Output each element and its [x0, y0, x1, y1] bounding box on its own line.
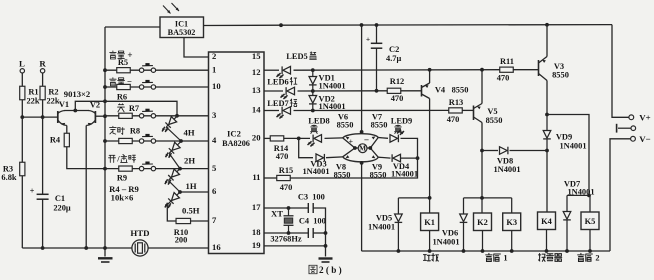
resistor R1 22k: [20, 86, 25, 100]
wire R down: [42, 73, 44, 87]
resistor R4: [64, 133, 69, 147]
diode VD9 1N4001: [546, 115, 548, 131]
svg-text:32768Hz: 32768Hz: [270, 234, 302, 244]
resistor R6: [117, 84, 131, 89]
wire R14 out: [284, 137, 310, 139]
wire row2: [105, 86, 209, 88]
resistor R10 200: [176, 218, 191, 223]
node rail-pin15: [279, 23, 283, 27]
wire chain feed: [75, 101, 177, 116]
node XT-bottom: [287, 231, 291, 235]
ground symbol left: [98, 257, 113, 259]
node R14-split: [297, 137, 301, 141]
svg-text:1: 1: [503, 253, 507, 263]
wire row1: [105, 69, 209, 71]
wire R11 to V3: [513, 69, 538, 71]
button S4: [139, 139, 143, 143]
node bus-row1: [103, 68, 107, 72]
svg-text:10: 10: [212, 81, 221, 91]
svg-text:1N4001: 1N4001: [391, 169, 418, 179]
terminal V-: [631, 136, 636, 141]
buzzer HTD: [132, 240, 148, 256]
svg-text:R9: R9: [117, 173, 127, 183]
resistor R15 470: [277, 175, 291, 180]
label yinyuan1 (source1): [486, 253, 492, 261]
transistor V5 8550: [473, 106, 475, 121]
svg-text:470: 470: [497, 73, 510, 83]
wire row19: [264, 245, 326, 247]
label off R7 (CJK guan): [118, 104, 125, 112]
wire VD7-K5 top: [567, 194, 590, 196]
wire bottom bus relays: [362, 250, 611, 252]
wire V+ rail top: [281, 24, 612, 27]
node VD8-K4: [545, 149, 549, 153]
node rail-V3: [545, 23, 549, 27]
wire row18: [264, 232, 308, 234]
wire row6 pin6: [180, 191, 209, 193]
svg-text:11: 11: [252, 172, 260, 182]
svg-text:470: 470: [280, 182, 293, 192]
node bus-chainfeed: [103, 99, 107, 103]
svg-text:2 ( b ): 2 ( b ): [319, 265, 342, 275]
diode VD1 1N4001: [312, 70, 314, 76]
svg-text:1H: 1H: [186, 181, 197, 191]
svg-text:IC2: IC2: [227, 129, 241, 139]
label timer R8 (CJK ding shi): [110, 126, 117, 134]
resistor R11 470: [500, 67, 514, 72]
node K1-top: [428, 196, 432, 200]
relay K3: [511, 198, 513, 213]
wire bridge to LED9: [378, 137, 388, 140]
diode VD5 1N4001: [397, 198, 399, 214]
node V5-VD8: [480, 149, 484, 153]
diode VD2 1N4001: [312, 91, 314, 95]
wire to K4: [546, 151, 548, 213]
terminal middle: [631, 126, 636, 131]
label vol- (CJK yin liang -): [110, 78, 116, 86]
node rail-bridge: [360, 23, 364, 27]
node K1-bus: [428, 249, 432, 253]
svg-text:C1: C1: [55, 193, 65, 203]
relay K2: [481, 198, 483, 213]
label gongfang (amp): [424, 255, 431, 261]
button S2: [139, 85, 143, 89]
wire C1 to bus: [42, 199, 44, 248]
svg-text:1N4001: 1N4001: [493, 164, 520, 174]
node C2-row13: [375, 89, 379, 93]
wire chain 1-2: [166, 127, 181, 141]
node bus-row5: [103, 167, 107, 171]
svg-text:10k×6: 10k×6: [111, 193, 134, 203]
terminal V+: [629, 115, 634, 120]
wire R13 to V5: [462, 109, 473, 111]
LED D-1H: [177, 169, 180, 172]
wire row17: [264, 207, 308, 209]
button S5: [139, 166, 143, 170]
svg-text:2H: 2H: [184, 156, 195, 166]
wire VD6-K3 top: [464, 197, 512, 199]
svg-text:200: 200: [175, 235, 188, 245]
node K2-top: [480, 196, 484, 200]
node V2emitter-bus: [84, 246, 88, 250]
resistor R3 6.8k: [20, 162, 25, 176]
relay K4: [538, 212, 556, 230]
resistor R12 470: [387, 88, 401, 93]
node VD6-bus: [462, 249, 466, 253]
svg-text:100: 100: [313, 216, 326, 226]
svg-text:+: +: [366, 35, 370, 44]
wire VD5-K1 top: [398, 197, 429, 199]
LED LED7: [283, 107, 291, 115]
diode VD8 1N4001: [500, 147, 508, 155]
node V4-row12: [428, 68, 432, 72]
diode VD4 1N4001: [393, 154, 401, 162]
svg-text:3: 3: [212, 110, 217, 120]
node K4-bus: [545, 249, 549, 253]
wire L down: [21, 73, 23, 87]
svg-text:R6: R6: [117, 92, 127, 102]
LED D-0.5H: [177, 192, 180, 195]
node chain-top feed: [73, 109, 77, 113]
transistor V6 arrow: [346, 137, 350, 140]
svg-text:1N4001: 1N4001: [319, 80, 346, 90]
label yinyuan2 (source2): [578, 253, 584, 261]
wire chain 3-4: [168, 180, 180, 192]
resistor R2 22k: [40, 86, 45, 100]
wire C4 right: [313, 232, 325, 234]
svg-text:BA8206: BA8206: [222, 139, 250, 148]
svg-text:K2: K2: [477, 217, 488, 227]
svg-text:470: 470: [447, 114, 460, 124]
wire row20: [264, 137, 270, 139]
svg-text:K3: K3: [506, 217, 517, 227]
svg-text:100: 100: [312, 192, 325, 202]
node motor left: [353, 146, 357, 150]
diode VD7 1N4001: [566, 195, 568, 211]
node bus-row4: [103, 139, 107, 143]
svg-text:C4: C4: [299, 216, 310, 226]
resistor R5: [117, 68, 131, 73]
transistor V7 arrow: [372, 136, 376, 139]
wire down to C1: [42, 117, 44, 194]
svg-text:8550: 8550: [486, 115, 503, 125]
wire row3 pin3: [105, 115, 209, 117]
wire bottom bus right to pin16: [148, 247, 208, 249]
capacitor C2 4.7u: [376, 25, 378, 43]
wire base row to V1: [22, 116, 58, 118]
transistor V3 8550: [538, 60, 540, 76]
node chain-row4: [179, 139, 183, 143]
relay K1: [429, 198, 431, 213]
svg-text:5: 5: [212, 163, 216, 173]
label on/select (CJK kai / xuan ze): [109, 155, 116, 162]
wire row12: [264, 69, 279, 71]
IR arrows into IC1: [163, 6, 171, 14]
node pin19-gnd: [324, 244, 328, 248]
svg-text:C3: C3: [298, 192, 308, 202]
svg-text:K4: K4: [541, 216, 553, 226]
svg-text:19: 19: [252, 240, 261, 250]
wire rail to bridge top: [361, 25, 363, 132]
svg-text:1N4001: 1N4001: [368, 221, 395, 231]
svg-text:20: 20: [252, 133, 261, 143]
svg-text:LED5: LED5: [286, 51, 308, 61]
LED LED6: [287, 87, 295, 95]
node chain-row6: [178, 190, 182, 194]
node VD4-corner: [416, 156, 420, 160]
node V3-split: [545, 113, 549, 117]
node C4-gnd: [324, 231, 328, 235]
node bus-V2base: [103, 114, 107, 118]
svg-text:R13: R13: [449, 97, 463, 107]
wire V3 bottom: [546, 81, 548, 115]
wire row13: [264, 90, 283, 92]
diode VD6 1N4001: [463, 198, 465, 214]
wire row14: [264, 110, 279, 112]
svg-text:1N4001: 1N4001: [432, 236, 459, 246]
node K5-bus: [588, 249, 592, 253]
wire R2 to base node: [42, 100, 44, 118]
wire LED9 corner: [401, 138, 418, 158]
wire chain to R10: [167, 205, 176, 221]
wire VD8 row left: [482, 150, 498, 152]
svg-text:4: 4: [212, 135, 217, 145]
svg-text:R7: R7: [129, 103, 139, 113]
wire VD4 row: [401, 157, 418, 159]
wire VD3 branch: [299, 138, 313, 157]
wire V4 emitter up: [429, 70, 431, 83]
transistor V4 8550: [421, 85, 423, 97]
svg-text:4H: 4H: [184, 128, 195, 138]
wire bridge bottom down: [361, 163, 363, 251]
svg-text:14: 14: [252, 105, 261, 115]
node bridge bottom: [360, 161, 364, 165]
wire V5 collector down: [481, 123, 483, 198]
node VD1-top: [311, 68, 315, 72]
svg-text:V+: V+: [639, 112, 650, 122]
wire row12 cont: [294, 69, 501, 72]
svg-text:9013×2: 9013×2: [64, 89, 90, 99]
svg-text:LED6: LED6: [267, 76, 289, 86]
node K5-top: [587, 194, 591, 198]
wire ground bus vertical: [104, 27, 106, 257]
svg-text:LED9: LED9: [391, 116, 413, 126]
wire R1 to base node: [21, 100, 23, 118]
svg-text:/: /: [116, 154, 120, 164]
resistor R8: [119, 138, 133, 143]
node VD2-bottom: [311, 109, 315, 113]
wire row13 cont: [298, 90, 388, 92]
node bridge top: [360, 130, 364, 134]
crystal XT 32768Hz: [288, 208, 290, 216]
node C1-bus: [41, 246, 45, 250]
svg-text:8550: 8550: [552, 70, 569, 80]
node V5-row12: [480, 68, 484, 72]
svg-text:R15: R15: [279, 165, 293, 175]
label yangshengqi (speaker): [539, 254, 546, 262]
svg-text:+: +: [349, 136, 354, 145]
svg-text:6.8k: 6.8k: [1, 172, 17, 182]
wire VD8 row right: [510, 150, 548, 152]
svg-text:HTD: HTD: [130, 228, 149, 238]
wire row11: [264, 177, 277, 179]
svg-text:R8: R8: [130, 126, 140, 136]
wire R3 to bus: [21, 176, 23, 248]
button S1: [139, 68, 143, 72]
node chain-R7row: [175, 114, 179, 118]
svg-text:1N4001: 1N4001: [559, 140, 586, 150]
node VD5-bus: [397, 249, 401, 253]
caption fig 2(b): [309, 265, 317, 273]
wire V5 emitter up: [481, 70, 483, 104]
wire R15 to corner: [291, 158, 418, 178]
svg-text:8550: 8550: [371, 120, 388, 130]
wire V3 top to rail: [546, 25, 548, 57]
svg-text:22k: 22k: [46, 96, 59, 106]
svg-text:LED8: LED8: [308, 116, 330, 126]
resistor R7: [119, 113, 133, 118]
LED LED8: [314, 135, 322, 143]
wire IC1 left to ground bus: [105, 26, 160, 28]
wire V2 base to bus: [95, 115, 105, 117]
node rail-C2: [375, 23, 379, 27]
wire row4 pin4: [105, 140, 209, 142]
node bus-row2: [103, 85, 107, 89]
svg-text:BA5302: BA5302: [168, 28, 196, 37]
svg-text:470: 470: [391, 93, 404, 103]
node XT-top: [287, 206, 291, 210]
svg-text:2: 2: [595, 253, 599, 263]
svg-text:K1: K1: [424, 217, 435, 227]
wire C3 right: [313, 208, 325, 257]
svg-text:22k: 22k: [26, 96, 39, 106]
svg-text:18: 18: [252, 227, 261, 237]
svg-text:6: 6: [212, 186, 217, 196]
button S3: [139, 114, 143, 118]
node motor right: [368, 146, 372, 150]
svg-text:8550: 8550: [452, 85, 469, 95]
LED LED9: [390, 135, 398, 143]
wire IC1 right to V+ rail: [204, 24, 282, 26]
IC IC1 BA5302 infrared receiver: [160, 17, 204, 38]
LED D-4H: [174, 116, 177, 119]
wire R12 to V4: [401, 90, 422, 92]
svg-text:15: 15: [252, 51, 261, 61]
node bus-bottom: [103, 246, 107, 250]
relay K5: [589, 195, 591, 212]
resistor R9: [119, 166, 133, 171]
svg-text:0.5H: 0.5H: [182, 206, 200, 216]
wire R4 to R9 node: [67, 147, 105, 169]
IC IC2 BA8206: [209, 52, 265, 254]
node K2-bus: [481, 249, 485, 253]
wire V+ drop right: [612, 25, 629, 118]
wire V4 collector down: [429, 99, 431, 198]
ground symbol right: [319, 257, 333, 259]
svg-text:XT: XT: [271, 209, 283, 219]
node VD7-bus: [565, 249, 569, 253]
svg-text:12: 12: [252, 67, 261, 77]
svg-text:1N4001: 1N4001: [302, 166, 329, 176]
capacitor C1 220u: [37, 193, 49, 195]
wire down to R3: [21, 117, 23, 162]
node R-base: [41, 115, 45, 119]
wire row5 pin5: [105, 168, 209, 170]
wire bottom bus left: [22, 247, 132, 249]
svg-text:7: 7: [212, 215, 217, 225]
svg-text:V4: V4: [435, 85, 446, 95]
svg-text:R11: R11: [500, 56, 514, 66]
wire VD3 to bridge: [326, 156, 343, 159]
svg-text:1: 1: [212, 64, 216, 74]
svg-text:17: 17: [252, 202, 261, 212]
transistor V9 arrow: [372, 155, 376, 158]
node K3-bus: [510, 249, 514, 253]
svg-text:K5: K5: [585, 216, 596, 226]
svg-text:LED7: LED7: [267, 98, 289, 108]
svg-text:+: +: [127, 50, 132, 60]
svg-text:R: R: [39, 59, 46, 69]
svg-text:+: +: [30, 187, 35, 196]
svg-text:M: M: [359, 144, 366, 153]
motor bridge outline: [343, 134, 379, 138]
svg-text:1N4001: 1N4001: [319, 101, 346, 111]
resistor R13 470: [449, 108, 463, 113]
svg-text:470: 470: [276, 151, 289, 161]
svg-text:R4: R4: [50, 135, 61, 145]
wire row14 cont: [294, 109, 449, 111]
LED LED5: [283, 66, 291, 74]
resistor R14 470: [270, 136, 284, 141]
wire V1-V2 collector link: [65, 110, 90, 112]
svg-text:L: L: [19, 59, 25, 69]
svg-text:4.7μ: 4.7μ: [386, 53, 402, 63]
node L-base: [20, 115, 24, 119]
svg-text:220μ: 220μ: [53, 203, 71, 213]
node VD1-VD2: [311, 89, 315, 93]
svg-text:16: 16: [212, 242, 221, 252]
svg-text:13: 13: [252, 85, 261, 95]
wire V3 to K5 branch: [547, 115, 589, 196]
svg-text:R5: R5: [118, 57, 128, 67]
svg-text:V−: V−: [639, 134, 650, 144]
label vol+ (CJK yin liang +): [110, 51, 116, 59]
wire chain 2-3: [169, 153, 180, 169]
svg-text:2: 2: [212, 51, 216, 61]
svg-text:R12: R12: [390, 76, 404, 86]
svg-text:V1: V1: [59, 99, 69, 109]
transistor V8 arrow: [346, 155, 350, 158]
wire IC1 bottom to pin2: [184, 38, 209, 58]
node chain-row5: [178, 167, 182, 171]
diode VD3 1N4001: [316, 154, 324, 162]
LED D-2H: [177, 142, 180, 145]
wire V- to bottom bus: [610, 139, 631, 251]
wire VD4 to bridge: [378, 156, 390, 159]
wire R10 pin7: [191, 220, 209, 222]
svg-text:8550: 8550: [337, 120, 354, 130]
wire LED8 to bridge: [325, 137, 343, 140]
